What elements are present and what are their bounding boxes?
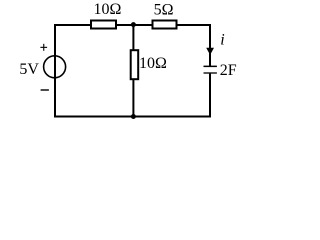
svg-text:2F: 2F: [220, 62, 237, 79]
svg-text:10Ω: 10Ω: [139, 55, 167, 72]
svg-text:i: i: [220, 32, 224, 49]
svg-text:5Ω: 5Ω: [154, 2, 174, 19]
capacitor C1 top plate: [204, 66, 217, 68]
resistor R3 box (10 ohm, middle vertical): [131, 50, 139, 79]
wire: top rail segment between R1 and R2: [117, 24, 152, 26]
label: + polarity sign of V1: [40, 44, 47, 51]
junction node (top, between R1 and R2): [131, 22, 136, 27]
svg-text:5V: 5V: [19, 61, 39, 78]
wire: bottom rail: [54, 116, 211, 118]
current arrow i (arrowhead on right branch): [206, 48, 214, 55]
capacitor C1 bottom plate: [204, 72, 217, 73]
resistor R2 box (5 ohm, top right): [153, 21, 177, 29]
svg-text:10Ω: 10Ω: [94, 1, 122, 18]
junction node (bottom rail): [131, 114, 136, 119]
resistor R1 box (10 ohm, top left): [91, 21, 116, 29]
label: - polarity sign of V1: [41, 89, 49, 90]
wire: middle branch lower segment: [132, 80, 134, 117]
wire: left branch (top rail start, top-left corner, left vertical through source): [55, 25, 90, 118]
voltage source V1 (5V) circle: [44, 56, 66, 78]
wire: middle branch upper segment: [132, 25, 134, 50]
wire: right branch below capacitor: [209, 73, 211, 117]
wire: top rail from R2 through top-right corner down to capacitor: [178, 25, 211, 66]
